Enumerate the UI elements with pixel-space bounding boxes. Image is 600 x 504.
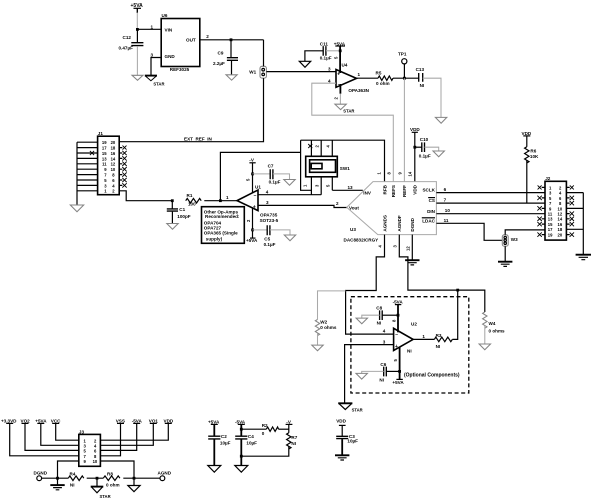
svg-text:DIN: DIN	[427, 209, 436, 214]
wire down to digital ground	[57, 478, 59, 485]
test point TP1	[398, 52, 407, 79]
svg-text:C9: C9	[218, 51, 224, 56]
svg-text:NI: NI	[291, 441, 296, 446]
svg-text:NI: NI	[377, 320, 382, 325]
ground (digital, J2)	[576, 255, 591, 260]
capacitor C4	[235, 424, 257, 445]
connector J2	[545, 176, 566, 240]
svg-text:3: 3	[151, 52, 154, 57]
wire -5VA node to R2	[241, 428, 266, 430]
svg-text:STAR: STAR	[352, 408, 363, 413]
jumper W1	[249, 66, 266, 78]
svg-text:OPA365 (Single: OPA365 (Single	[204, 231, 238, 236]
svg-text:SCLK: SCLK	[422, 188, 435, 193]
node: junction C10	[413, 146, 416, 149]
wire J3 pin 10 to AGND net	[100, 461, 134, 478]
wire R1 to U1 output	[204, 200, 237, 202]
svg-text:+: +	[395, 344, 398, 350]
wire C12 to ground (grey)	[136, 46, 138, 75]
svg-text:1: 1	[358, 72, 361, 77]
svg-text:-5VA: -5VA	[235, 420, 246, 425]
node: junction C1	[171, 199, 174, 202]
wire R2 to -V	[279, 428, 289, 430]
node: junction C5	[251, 229, 254, 232]
capacitor C7	[253, 164, 281, 185]
svg-text:0: 0	[262, 431, 265, 436]
svg-text:C5: C5	[264, 237, 270, 242]
svg-text:C13: C13	[416, 67, 425, 72]
wire GND pin 3 to STAR	[151, 58, 161, 76]
wire C10 to ground (grey)	[425, 147, 439, 151]
no-connect X stubs J2 left pins	[537, 185, 545, 236]
SW1 pin stubs	[311, 140, 332, 195]
svg-text:12: 12	[111, 162, 116, 167]
wire U1 +input pin 3 to U3 Vout	[258, 205, 347, 207]
svg-text:DAC8832ICRGY: DAC8832ICRGY	[344, 238, 379, 243]
node: junction C4 / rail	[240, 455, 243, 458]
node: junction AGND rail	[133, 477, 136, 480]
resistor R7 (NI)	[287, 433, 298, 449]
svg-text:DGND: DGND	[410, 217, 415, 231]
svg-text:NI: NI	[420, 83, 425, 88]
resistor R3 (NI)	[434, 333, 452, 349]
wire C9 to ground	[231, 61, 233, 75]
power +5VA (U2 V+)	[392, 348, 404, 386]
wire VDD to J3 pin 2	[100, 423, 168, 440]
svg-text:3: 3	[266, 200, 269, 205]
svg-text:OUT: OUT	[186, 37, 196, 42]
wire C11 left to ground	[305, 51, 323, 61]
svg-text:C12: C12	[123, 35, 132, 40]
power VDD (J3)	[164, 418, 174, 423]
svg-text:U2: U2	[411, 321, 417, 326]
wire C6 right to +5VA line	[386, 370, 399, 372]
svg-text:14: 14	[558, 217, 563, 222]
svg-text:1: 1	[151, 24, 154, 29]
svg-text:14: 14	[111, 156, 116, 161]
svg-text:0.1µF: 0.1µF	[320, 55, 332, 60]
wire U1 output feedback up to SW1	[220, 152, 300, 200]
wire U2 +input pin 3 to STAR	[345, 345, 394, 404]
svg-text:0.1µF: 0.1µF	[269, 180, 281, 185]
capacitor C13 (NI)	[416, 67, 425, 88]
svg-text:VSS: VSS	[116, 418, 125, 423]
svg-text:W3: W3	[511, 237, 518, 242]
wire R8 to AGND	[123, 477, 160, 479]
power VDD (C3)	[336, 419, 346, 426]
wire DGND to R4	[42, 477, 69, 479]
wire R4 to R8	[87, 477, 104, 479]
power -5VA (U2 V-)	[393, 300, 404, 305]
svg-text:NI: NI	[379, 377, 384, 382]
ground (under C9)	[226, 75, 237, 80]
no-connect X stubs J2 right pins	[566, 185, 574, 236]
svg-text:REFS: REFS	[391, 185, 396, 197]
wire OUT pin 2	[200, 39, 264, 41]
terminal DGND	[34, 471, 48, 481]
wire U1 V- pin 2	[246, 208, 253, 238]
wire VCC to J3 pin 1	[56, 423, 79, 440]
no-connect X stubs J1 right pins	[119, 146, 127, 188]
terminal AGND	[158, 471, 172, 481]
svg-text:R7: R7	[291, 435, 297, 440]
no-connect X on J1 pin 15	[90, 151, 94, 155]
svg-text:10: 10	[93, 459, 98, 464]
svg-text:SW1: SW1	[340, 166, 350, 171]
svg-text:VO1: VO1	[149, 418, 159, 423]
power +5VA (J3)	[35, 418, 47, 423]
wire +5VA to J3 pin 3	[41, 423, 79, 445]
svg-text:R8: R8	[107, 472, 113, 477]
svg-text:AGNDF: AGNDF	[397, 215, 402, 232]
svg-text:−: −	[254, 193, 257, 199]
ground (under C2)	[208, 466, 221, 473]
capacitor C1	[167, 201, 191, 219]
ground STAR (U2)	[338, 403, 362, 412]
svg-text:4: 4	[328, 78, 331, 83]
wire +3.3VD to J3 pin 7	[10, 423, 79, 455]
svg-text:Vout: Vout	[349, 205, 359, 210]
svg-text:15: 15	[102, 151, 107, 156]
ground (digital, under DGND)	[405, 260, 419, 265]
node: junction C6 / +5VA	[398, 370, 401, 373]
resistor R4 (NI)	[68, 472, 84, 488]
power -5VA (C4)	[235, 420, 246, 425]
wire VIN pin 1	[137, 28, 161, 30]
capacitor C2	[208, 424, 230, 445]
svg-text:C11: C11	[320, 41, 329, 46]
svg-text:−: −	[395, 332, 398, 338]
svg-text:AGNDS: AGNDS	[382, 215, 387, 232]
wire W4 to ground (grey)	[484, 326, 486, 344]
wires J1 left pins to bus	[77, 142, 98, 191]
svg-text:NI: NI	[407, 348, 412, 353]
node: junction DGND rail	[56, 477, 59, 480]
ground STAR (U4)	[335, 104, 354, 113]
node: junction R3 rail	[456, 289, 459, 292]
svg-text:U4: U4	[342, 63, 348, 68]
wire C6 left to ground (grey)	[362, 371, 384, 373]
ground (under C7)	[284, 180, 295, 186]
ground (under C8)	[356, 318, 367, 324]
svg-text:2.2µF: 2.2µF	[213, 61, 225, 66]
wire down to analog ground	[133, 478, 135, 485]
wire R5 to TP1 node	[393, 77, 419, 79]
wire AGNDS pin 4 to U2 -input	[346, 235, 394, 335]
switch SW1	[306, 156, 350, 177]
svg-text:20: 20	[111, 140, 116, 145]
svg-text:(Optional Components): (Optional Components)	[404, 373, 460, 379]
svg-text:18: 18	[111, 146, 116, 151]
power VO1	[149, 418, 159, 423]
connector J1	[98, 131, 120, 195]
capacitor C3	[336, 425, 358, 443]
capacitor C11	[320, 41, 332, 60]
wire U1 -input pin 4 to SW1	[258, 194, 321, 196]
svg-text:7: 7	[444, 198, 447, 203]
svg-text:REF3025: REF3025	[170, 67, 190, 72]
wire DGND pin 12 to ground	[406, 235, 413, 260]
svg-text:10K: 10K	[530, 154, 539, 159]
svg-text:1: 1	[226, 195, 229, 200]
svg-text:C2: C2	[221, 434, 227, 439]
svg-text:13: 13	[102, 156, 107, 161]
connector J3	[79, 429, 101, 466]
svg-text:0 ohms: 0 ohms	[489, 328, 506, 333]
op-amp U4	[336, 63, 370, 94]
wire W3 top to J2 pin 17	[505, 230, 545, 235]
ground STAR (J3)	[91, 487, 111, 499]
op-amp U2 (NI)	[394, 321, 418, 353]
ground (digital, under C3)	[335, 455, 349, 460]
no-connect X on SW1 top pin	[308, 144, 312, 148]
node: junction +5VA / C12 / VIN	[136, 28, 139, 31]
svg-text:2: 2	[206, 34, 209, 39]
wire SCLK pin 6 to J2 pin 3	[436, 192, 545, 194]
svg-text:1: 1	[422, 334, 425, 339]
wire OUT down to W1	[263, 40, 265, 67]
svg-text:J1: J1	[98, 131, 104, 136]
DAC U3 DAC8832	[344, 182, 437, 243]
wire W2 to ground (grey)	[317, 333, 319, 345]
power VSS	[116, 418, 125, 423]
svg-text:10µF: 10µF	[246, 440, 257, 445]
wire C3 to ground	[341, 439, 343, 455]
svg-text:VDD: VDD	[164, 418, 174, 423]
svg-text:J2: J2	[545, 176, 551, 181]
power VO2	[21, 418, 31, 423]
svg-text:19: 19	[548, 233, 553, 238]
svg-text:R4: R4	[70, 472, 76, 477]
svg-text:REFF: REFF	[402, 185, 407, 197]
ground (under C13)	[435, 117, 446, 123]
node: junction C7	[251, 173, 254, 176]
ground (under C6)	[356, 373, 367, 379]
wire W1 down to EXT_REF_IN	[119, 78, 263, 142]
svg-text:10µF: 10µF	[347, 438, 358, 443]
svg-text:0 ohms: 0 ohms	[320, 325, 337, 330]
svg-text:STAR: STAR	[343, 109, 354, 114]
svg-text:OPA363N: OPA363N	[348, 88, 369, 93]
power +5VA (C2)	[208, 420, 220, 425]
capacitor C5	[253, 225, 276, 247]
node: junction STAR tap	[96, 477, 99, 480]
wire CS pin 7 to J2 pin 7	[436, 202, 545, 204]
op-amp U1	[237, 184, 279, 223]
svg-text:18: 18	[558, 227, 563, 232]
node: junction +5VA / U4 V+	[339, 49, 342, 52]
svg-text:10: 10	[445, 208, 451, 213]
svg-text:0 ohm: 0 ohm	[106, 483, 120, 488]
wire VSS to J3 pin 8	[100, 423, 120, 455]
svg-text:INV: INV	[363, 190, 372, 195]
power +3.3VD	[1, 418, 17, 423]
dashed box (optional components)	[351, 297, 469, 393]
svg-text:VIN: VIN	[165, 27, 173, 32]
svg-text:STAR: STAR	[100, 494, 111, 499]
ground (under C10)	[433, 151, 444, 157]
svg-text:13: 13	[548, 217, 553, 222]
svg-text:NI: NI	[436, 344, 441, 349]
resistor R1 100	[186, 193, 202, 207]
power -5VA (J3)	[132, 418, 143, 423]
svg-text:GND: GND	[165, 54, 176, 59]
wire VO1 to J3 pin 4	[100, 423, 153, 445]
wire -5VA to U2 top pin 8	[391, 305, 398, 333]
wire C11 right to +5VA node (grey)	[326, 50, 340, 52]
svg-text:W2: W2	[320, 319, 327, 324]
power +5VA (top left)	[131, 3, 144, 13]
svg-text:C7: C7	[268, 164, 274, 169]
svg-text:17: 17	[102, 146, 107, 151]
wire SW1 to INV pin 13	[332, 189, 363, 191]
svg-text:W4: W4	[489, 321, 496, 326]
svg-text:C6: C6	[380, 362, 386, 367]
ground (under W2)	[312, 345, 323, 351]
ground (digital, J3)	[50, 485, 64, 490]
svg-text:+5VA: +5VA	[35, 418, 47, 423]
svg-text:U6: U6	[162, 13, 168, 18]
ground (analog, under C12)	[132, 75, 143, 80]
svg-text:Recommended:: Recommended:	[205, 214, 240, 219]
node: junction -5VA / R2	[240, 428, 243, 431]
wire W1 to U4 +input	[266, 71, 336, 73]
wire -5VA to J3 pin 6	[100, 423, 136, 450]
wire C13 to ground (grey)	[423, 78, 441, 117]
svg-text:VDD: VDD	[522, 131, 532, 136]
svg-text:13: 13	[348, 185, 354, 190]
svg-text:+: +	[253, 204, 256, 210]
ground (under W4)	[479, 344, 490, 350]
resistor R6 10K	[525, 136, 539, 203]
ground (under C11 left)	[299, 61, 310, 67]
svg-text:+: +	[337, 71, 340, 77]
wire J1 ground bus	[76, 142, 78, 205]
wire J2 ground rail	[582, 193, 584, 255]
wire J3 pin 9 to DGND net	[58, 461, 79, 478]
SW1 left rail	[301, 140, 312, 195]
capacitor C8 (NI)	[376, 305, 382, 325]
wire C8 left to ground (grey)	[362, 315, 380, 318]
power -V (U1 V+)	[246, 158, 256, 193]
wire SW1 to RFB (pin 1)	[301, 140, 385, 181]
power VDD (U3)	[410, 127, 420, 132]
wire +5VA vertical (grey)	[136, 13, 138, 30]
node: junction C9	[230, 38, 233, 41]
svg-text:10: 10	[111, 167, 116, 172]
svg-text:+5VA: +5VA	[392, 380, 404, 385]
wire +5VA down to U4 V+ pin 5	[339, 46, 341, 73]
power +5VA (U1 V-)	[246, 238, 258, 243]
wire down to STAR	[96, 478, 98, 486]
svg-text:C8: C8	[376, 305, 382, 310]
wire J1 pin2 to C1/R1 net	[119, 191, 172, 201]
ground (J1 bus)	[70, 205, 83, 212]
svg-text:0.1µF: 0.1µF	[264, 242, 276, 247]
wire LDAC pin 11 to W3	[436, 223, 502, 240]
svg-text:3: 3	[328, 67, 331, 72]
wire C7 to ground (grey)	[273, 174, 290, 179]
wires J2 right grounded pins 4,10,18	[566, 193, 583, 230]
wire C2 to ground	[213, 439, 215, 465]
jumper resistor W2 0 ohms	[315, 319, 337, 335]
wire U4 output pin 1	[357, 77, 379, 79]
capacitor C6 (NI)	[379, 362, 386, 382]
svg-text:OPA735: OPA735	[260, 212, 278, 217]
svg-text:11: 11	[102, 162, 107, 167]
svg-text:-5VA: -5VA	[393, 300, 404, 305]
svg-text:SOT23-5: SOT23-5	[260, 218, 279, 223]
svg-text:11: 11	[444, 218, 449, 223]
svg-text:R5: R5	[376, 71, 382, 76]
wire VDD to U3 pin 14	[414, 132, 416, 181]
wire VO2 to J3 pin 5	[25, 423, 79, 450]
wire rail down to R3	[452, 290, 457, 339]
wire AGNDF pin 3 to R3/W4 rail	[393, 235, 485, 312]
ground (analog, J3)	[128, 486, 140, 492]
wire U4 V- pin 2	[339, 84, 341, 94]
svg-text:+5VA: +5VA	[246, 238, 258, 243]
wire C8 right to -5VA line	[382, 314, 398, 316]
svg-text:-5VA: -5VA	[132, 418, 143, 423]
wire TP1 node down to REFF (grey)	[403, 78, 405, 181]
ground (digital, under W3)	[498, 262, 512, 267]
svg-text:R2: R2	[262, 423, 268, 428]
svg-text:C10: C10	[420, 137, 429, 142]
wire U2 output pin 1	[413, 338, 434, 340]
wire C4 down to ground	[240, 439, 242, 465]
svg-text:VDD: VDD	[336, 419, 346, 424]
svg-text:VO2: VO2	[21, 418, 31, 423]
svg-text:3: 3	[383, 340, 386, 345]
svg-text:0.47µF: 0.47µF	[119, 46, 134, 51]
svg-text:W1: W1	[249, 70, 256, 75]
wire C5 to ground (grey)	[270, 230, 290, 235]
svg-text:100pF: 100pF	[177, 214, 190, 219]
ground (under C5)	[284, 235, 295, 241]
svg-text:0 ohm: 0 ohm	[376, 81, 390, 86]
node: junction TP1 / REFF	[403, 77, 406, 80]
svg-text:6: 6	[444, 187, 447, 192]
svg-text:NI: NI	[70, 483, 75, 488]
svg-text:12: 12	[406, 246, 411, 251]
svg-text:C1: C1	[179, 207, 185, 212]
svg-text:19: 19	[102, 140, 107, 145]
resistor R5 0 ohm	[376, 71, 394, 86]
svg-text:R3: R3	[436, 333, 442, 338]
U6 REF3025	[161, 13, 200, 72]
svg-text:CS: CS	[429, 198, 435, 203]
svg-text:+3.3VD: +3.3VD	[1, 418, 17, 423]
svg-text:TP1: TP1	[398, 52, 407, 57]
svg-text:U1: U1	[255, 184, 261, 189]
power -V (bottom)	[286, 420, 293, 433]
svg-text:14: 14	[408, 171, 413, 176]
svg-text:VDD: VDD	[410, 127, 420, 132]
node: junction U1 output / feedback	[219, 199, 222, 202]
svg-text:100: 100	[188, 202, 196, 207]
svg-text:supply): supply)	[206, 237, 223, 242]
svg-text:4: 4	[266, 190, 269, 195]
ground STAR (U6)	[145, 76, 165, 87]
ground (under C1)	[167, 224, 178, 230]
power VCC	[51, 418, 61, 423]
wire W3 bottom to ground	[504, 246, 506, 261]
svg-text:4: 4	[383, 329, 386, 334]
node: junction C8 / -5VA	[397, 314, 400, 317]
jumper W3	[502, 235, 518, 246]
svg-text:DGND: DGND	[34, 471, 48, 476]
